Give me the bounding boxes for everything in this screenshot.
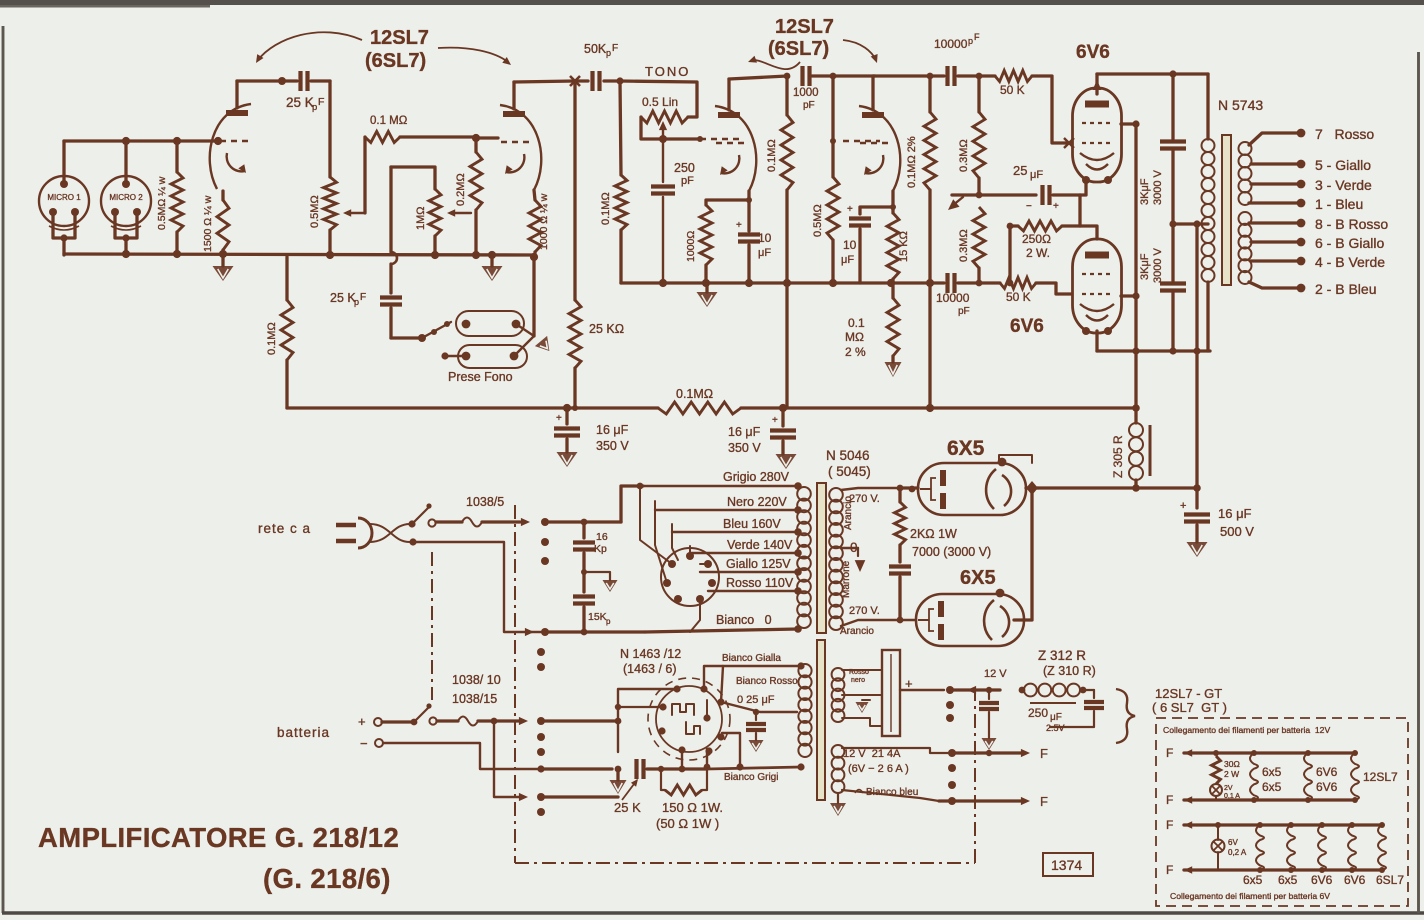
potentiometer 0.5 Lin tone <box>641 111 688 123</box>
svg-text:15 KΩ: 15 KΩ <box>898 231 910 262</box>
resistor 250 ohm 2W cathode <box>1010 224 1018 227</box>
svg-text:0: 0 <box>850 540 858 555</box>
microphone MICRO 2 <box>101 176 151 226</box>
svg-text:0.1MΩ 2%: 0.1MΩ 2% <box>906 136 918 188</box>
arrow 12V feed <box>950 688 1000 691</box>
stage2 ground bus <box>621 281 944 284</box>
svg-text:350 V: 350 V <box>728 441 761 455</box>
svg-text:12SL7: 12SL7 <box>370 27 429 49</box>
svg-text:1038/15: 1038/15 <box>452 692 497 706</box>
vibrator dashed circle <box>648 678 730 760</box>
swoosh arrow left to V1a <box>258 32 362 60</box>
filter capacitor 16uF 350V first <box>565 408 568 424</box>
svg-text:2 W.: 2 W. <box>1026 246 1050 260</box>
capacitor 1000pF coupling <box>800 66 804 86</box>
svg-text:pF: pF <box>958 306 970 317</box>
ground symbol rectifier <box>862 699 870 701</box>
resistor 0.1Mohm left leg <box>285 360 288 408</box>
svg-text:7000 (3000 V): 7000 (3000 V) <box>912 545 991 559</box>
svg-text:12 V: 12 V <box>984 668 1007 680</box>
svg-text:(Z 310 R): (Z 310 R) <box>1043 664 1096 678</box>
svg-text:1000 Ω ¼ w: 1000 Ω ¼ w <box>538 193 550 250</box>
svg-text:150 Ω 1W.: 150 Ω 1W. <box>662 800 723 815</box>
OT secondary winding upper <box>1239 142 1252 155</box>
svg-text:Z 312 R: Z 312 R <box>1038 648 1086 663</box>
svg-text:10000: 10000 <box>936 291 970 305</box>
inset lamp 6V <box>1215 822 1221 828</box>
resistor 1500 ohm quarter-watt <box>217 200 229 250</box>
svg-text:25 K: 25 K <box>330 291 356 305</box>
svg-text:μF: μF <box>758 247 771 259</box>
tono top wire <box>620 81 697 117</box>
svg-text:0.1: 0.1 <box>848 316 865 330</box>
rectifier block connections <box>842 669 882 671</box>
svg-text:10: 10 <box>758 231 772 245</box>
socket connector wires <box>640 486 672 564</box>
bottom border line <box>2 911 1424 915</box>
vibrator left rail <box>618 689 677 752</box>
resistor 0.5Mohm quarter-watt <box>175 141 178 172</box>
ground symbol 16uF first <box>565 439 568 452</box>
svg-text:+: + <box>1180 500 1186 512</box>
resistor 0.1Mohm decoupling bus <box>287 406 658 409</box>
svg-text:p: p <box>968 36 973 46</box>
inset heater 6V6 pair <box>1305 750 1311 756</box>
capacitor 2K bypass <box>898 545 901 562</box>
svg-text:0,2 A: 0,2 A <box>1228 848 1247 857</box>
6V6 lower plate to OT bottom <box>1095 331 1098 351</box>
svg-text:1500 Ω ¼ w: 1500 Ω ¼ w <box>202 195 214 252</box>
switch prese fono <box>389 308 392 338</box>
svg-text:0.2MΩ: 0.2MΩ <box>455 173 467 206</box>
svg-text:0.3MΩ: 0.3MΩ <box>958 229 970 262</box>
V2b cathode wires <box>860 191 893 214</box>
inset dashed box <box>1156 718 1408 906</box>
wire battery plus to vibrator rail <box>541 719 618 722</box>
LV primary mid tap <box>721 702 797 712</box>
ground symbol stage2 <box>705 283 708 292</box>
OT center tap wire <box>1173 222 1208 225</box>
capacitor 15KpF <box>582 553 585 592</box>
svg-text:Bleu 160V: Bleu 160V <box>723 517 781 531</box>
PT core <box>817 483 826 633</box>
svg-text:0,1 A: 0,1 A <box>1224 793 1240 800</box>
svg-text:Collegamento dei filamenti per: Collegamento dei filamenti per batteria … <box>1163 725 1330 735</box>
svg-text:pF: pF <box>681 175 694 187</box>
pot wiper arrow <box>349 212 365 214</box>
resistor 50K upper <box>958 74 995 77</box>
svg-text:30Ω: 30Ω <box>1224 759 1240 769</box>
ground symbol lower grid leak <box>885 362 902 377</box>
capacitor 16KpF <box>582 522 585 538</box>
LV secondary lower winding <box>832 745 845 758</box>
vibrator body circle <box>656 686 722 752</box>
filament line F lower <box>948 797 956 805</box>
svg-text:12 V 21 4A: 12 V 21 4A <box>843 748 901 760</box>
filament line F upper <box>948 749 956 757</box>
svg-text:−: − <box>360 736 368 751</box>
svg-text:F: F <box>318 96 324 108</box>
wire mains to primary caps <box>545 520 584 523</box>
LV primary top tap Bianco Gialla <box>704 666 801 689</box>
resistor 0.2Mohm <box>474 138 477 152</box>
svg-text:250: 250 <box>1028 706 1048 720</box>
wire 50K to 6V6 grid upper <box>1032 76 1070 143</box>
V2a plate to rail <box>727 79 730 110</box>
svg-text:Verde 140V: Verde 140V <box>727 538 793 552</box>
svg-text:Nero 220V: Nero 220V <box>727 495 787 509</box>
capacitor 10000pF upper coupling <box>945 66 949 86</box>
OT tap 8 B Rosso <box>1249 221 1297 224</box>
inset lamp 12V <box>1210 784 1222 796</box>
battery minus wire <box>383 743 541 769</box>
svg-text:6V6: 6V6 <box>1344 873 1366 887</box>
svg-text:5 - Giallo: 5 - Giallo <box>1315 157 1371 173</box>
svg-text:F: F <box>1166 793 1173 807</box>
ground symbol buffer cap <box>749 740 764 752</box>
V2a grid wire dashes <box>700 138 740 141</box>
svg-text:6x5: 6x5 <box>1243 873 1263 887</box>
svg-text:+: + <box>358 714 366 729</box>
capacitor 3KuF 3000V lower <box>1160 281 1186 285</box>
arrow feed marker <box>952 197 963 206</box>
svg-text:6x5: 6x5 <box>1262 780 1282 794</box>
cathode capacitor 10uF V2a <box>738 232 760 236</box>
svg-text:10000: 10000 <box>934 37 968 51</box>
svg-text:0.1MΩ: 0.1MΩ <box>266 322 278 355</box>
fuse 1038/5 <box>436 520 462 523</box>
svg-text:3 - Verde: 3 - Verde <box>1315 177 1372 193</box>
wire V1b plate to top rail <box>512 82 515 109</box>
svg-text:12SL7: 12SL7 <box>1363 770 1398 784</box>
svg-text:p: p <box>606 48 611 58</box>
svg-text:rete c a: rete c a <box>258 521 311 536</box>
OT tap 6 B Giallo <box>1251 240 1297 243</box>
capacitor 50KpF coupling <box>575 79 588 82</box>
vibrator pins <box>673 685 680 692</box>
triode V2a 12SL7 second tube <box>718 112 740 118</box>
capacitor 25KpF coupling <box>298 71 302 91</box>
ground symbol prese fono <box>532 259 535 336</box>
svg-text:0.1MΩ: 0.1MΩ <box>676 387 713 401</box>
phono jack upper <box>456 311 524 336</box>
resistor 50K lower <box>958 281 1000 284</box>
svg-text:(1463 / 6): (1463 / 6) <box>623 662 677 676</box>
svg-text:0.5MΩ ¼ w: 0.5MΩ ¼ w <box>156 176 168 230</box>
svg-text:N 1463 /12: N 1463 /12 <box>620 647 681 661</box>
svg-text:−: − <box>1026 201 1032 212</box>
mains plug <box>336 523 356 528</box>
filament takeoff bracket <box>1116 689 1135 743</box>
svg-text:+: + <box>905 676 913 691</box>
svg-text:(G. 218/6): (G. 218/6) <box>263 863 391 894</box>
svg-text:270 V.: 270 V. <box>849 605 880 617</box>
svg-text:16 μF: 16 μF <box>596 423 629 437</box>
battery switch <box>382 720 414 723</box>
svg-text:16 μF: 16 μF <box>728 425 761 439</box>
power tube 6V6 lower <box>1073 239 1122 333</box>
svg-text:250Ω: 250Ω <box>1022 232 1051 246</box>
LV transformer core <box>817 640 825 800</box>
svg-text:3000 V: 3000 V <box>1152 169 1164 205</box>
svg-text:Giallo 125V: Giallo 125V <box>726 557 791 571</box>
svg-text:2 W: 2 W <box>1224 769 1239 779</box>
resistor 0.1Mohm V2a plate load <box>785 76 788 115</box>
wire micro2 top <box>124 141 127 184</box>
svg-text:25: 25 <box>1013 163 1027 178</box>
swoosh arrow right to V1b <box>438 48 508 62</box>
wire micro1 top <box>62 141 65 184</box>
svg-text:6SL7: 6SL7 <box>1376 873 1404 887</box>
svg-text:Prese Fono: Prese Fono <box>448 370 513 384</box>
svg-text:( 5045): ( 5045) <box>828 464 871 479</box>
svg-text:2V: 2V <box>1224 785 1233 792</box>
inset resistor 30ohm 2W <box>1213 750 1219 756</box>
svg-text:Arancio: Arancio <box>843 496 854 530</box>
svg-text:25 KΩ: 25 KΩ <box>589 322 624 336</box>
svg-text:6V6: 6V6 <box>1010 316 1044 337</box>
svg-text:MICRO 1: MICRO 1 <box>47 193 81 202</box>
ground symbol input stage left <box>221 255 224 266</box>
OT primary winding <box>1206 74 1209 139</box>
resistor 0.3Mohm lower <box>973 207 985 268</box>
grid leak 25 Kohm riser <box>573 81 576 300</box>
PT HV center tap <box>841 547 858 549</box>
OT tap 2 B Bleu <box>1249 282 1297 288</box>
choke Z305R <box>1134 408 1137 423</box>
LV primary bottom tap Bianco Grigi <box>707 767 801 769</box>
svg-text:1038/ 10: 1038/ 10 <box>452 673 501 687</box>
svg-text:6V6: 6V6 <box>1311 873 1333 887</box>
svg-text:Bianco Grigi: Bianco Grigi <box>724 772 778 783</box>
PT HV bottom tap 270V <box>841 620 916 626</box>
svg-text:Arancio: Arancio <box>840 626 874 637</box>
capacitor 25K <box>634 759 638 779</box>
svg-text:3KμF: 3KμF <box>1139 178 1151 205</box>
ground symbol 16uF 500V <box>1195 525 1198 542</box>
swoosh arrow left to V2a <box>751 60 800 69</box>
svg-text:25 K: 25 K <box>286 95 314 110</box>
twisted cord <box>370 524 410 542</box>
svg-text:250: 250 <box>674 161 695 175</box>
triode V1b 12SL7 second half <box>503 111 525 117</box>
svg-text:F: F <box>1166 818 1173 832</box>
svg-text:3000 V: 3000 V <box>1152 247 1164 283</box>
svg-text:500 V: 500 V <box>1220 524 1254 539</box>
svg-text:F: F <box>974 32 980 42</box>
resistor 0.1Mohm 2 percent upper <box>928 76 931 112</box>
svg-text:nero: nero <box>851 677 865 684</box>
OT core <box>1222 135 1231 285</box>
svg-text:Rosso 110V: Rosso 110V <box>726 576 794 590</box>
svg-text:Grigio 280V: Grigio 280V <box>723 470 790 484</box>
svg-text:6V6: 6V6 <box>1076 42 1110 63</box>
OT tap 3 Verde <box>1251 182 1297 185</box>
PT primary winding <box>797 487 811 501</box>
svg-text:2 - B Bleu: 2 - B Bleu <box>1315 281 1376 297</box>
V2b plate lead <box>871 76 874 110</box>
capacitor 25KpF prese fono <box>389 167 392 252</box>
svg-text:50 K: 50 K <box>1006 290 1031 304</box>
OT tap 7 Rosso <box>1249 133 1297 145</box>
right border line <box>1417 52 1420 913</box>
svg-text:6 - B Giallo: 6 - B Giallo <box>1315 235 1384 251</box>
file number 1374 box <box>1043 853 1093 876</box>
svg-text:1MΩ: 1MΩ <box>415 206 427 230</box>
cathode junction wire y195 <box>952 193 1036 196</box>
inset 6V heaters <box>1257 822 1263 828</box>
svg-text:Bianco 0: Bianco 0 <box>716 613 772 627</box>
cathode resistor 15Kohm <box>887 213 899 279</box>
svg-text:Z 305 R: Z 305 R <box>1111 435 1125 478</box>
capacitor 3KuF 3000V upper <box>1171 74 1174 139</box>
svg-text:25 K: 25 K <box>614 800 641 815</box>
battery dots column <box>537 717 545 725</box>
ground symbol 12V cap <box>982 738 997 750</box>
svg-text:10: 10 <box>843 238 857 252</box>
fuse 1038/10 1038/15 <box>437 719 458 722</box>
PT HV top tap 270V <box>841 488 900 490</box>
svg-text:pF: pF <box>803 100 815 111</box>
OT tap 4 B Verde <box>1251 259 1297 262</box>
V2b grid dashes <box>843 140 880 143</box>
svg-text:(6SL7): (6SL7) <box>365 50 426 72</box>
resistor 0.1Mohm 2 percent lower <box>891 283 894 298</box>
swoosh arrow right to V2b <box>843 40 876 60</box>
svg-text:F: F <box>1166 863 1173 877</box>
OT secondary winding lower <box>1239 212 1252 225</box>
LV secondary upper winding <box>832 668 845 681</box>
svg-text:0.1MΩ: 0.1MΩ <box>600 192 612 225</box>
svg-text:1000Ω: 1000Ω <box>685 231 697 262</box>
potentiometer 0.5Mohm volume <box>324 177 337 230</box>
tone wiper arrow <box>659 121 667 130</box>
LV transformer primary winding <box>798 664 811 677</box>
svg-text:N 5743: N 5743 <box>1218 97 1263 113</box>
svg-text:0.5MΩ: 0.5MΩ <box>309 195 321 228</box>
mains switch blade <box>412 508 428 524</box>
inset heater 6X5 pair <box>1251 750 1257 756</box>
cathode resistor 1000 ohm quarter-watt <box>534 190 535 200</box>
svg-text:Bianco Gialla: Bianco Gialla <box>722 653 781 664</box>
svg-text:1374: 1374 <box>1051 857 1082 873</box>
battery section boundary <box>431 552 433 700</box>
svg-text:μF: μF <box>1050 712 1062 723</box>
svg-text:F: F <box>1166 746 1173 760</box>
wire V1b grid dashes <box>476 136 498 139</box>
svg-text:Kp: Kp <box>594 543 607 555</box>
svg-text:6X5: 6X5 <box>960 567 996 589</box>
svg-text:+: + <box>772 415 778 426</box>
grid leak 0.5Mohm V2b <box>831 76 834 177</box>
microphone MICRO 1 <box>39 176 89 226</box>
svg-text:7 Rosso: 7 Rosso <box>1315 126 1374 142</box>
cathode resistor 1000 ohm V2a <box>700 205 712 265</box>
svg-text:0 25 μF: 0 25 μF <box>737 694 775 706</box>
rectifier block <box>882 650 900 736</box>
6X5 upper top link <box>999 455 1032 463</box>
svg-text:3KμF: 3KμF <box>1139 253 1151 280</box>
capacitor 25uF cathode <box>1040 185 1044 205</box>
ground symbol primary caps <box>584 572 610 580</box>
svg-text:TONO: TONO <box>645 64 690 79</box>
svg-text:MICRO 2: MICRO 2 <box>109 193 143 202</box>
rectifier output wire <box>900 689 944 691</box>
rectifier 6X5 upper <box>918 463 1026 515</box>
svg-text:MΩ: MΩ <box>845 330 864 344</box>
svg-text:1038/5: 1038/5 <box>466 495 504 509</box>
terminal dots column mains <box>541 518 549 526</box>
cathode capacitor 10uF V2b <box>849 216 871 220</box>
PT HV secondary winding <box>829 488 843 502</box>
svg-text:μF: μF <box>841 254 854 266</box>
top dark border strip <box>0 0 1424 5</box>
svg-text:16: 16 <box>596 531 608 543</box>
svg-text:50 K: 50 K <box>1000 83 1025 97</box>
voltage selector socket <box>661 548 719 606</box>
svg-text:F: F <box>1040 794 1048 809</box>
power tube 6V6 upper <box>1073 88 1122 182</box>
svg-text:+: + <box>736 220 742 231</box>
B+ line from rectifier <box>1038 486 1197 489</box>
resistor 0.1Mohm tono leak <box>620 81 621 175</box>
filter capacitor 16uF 500V <box>1195 488 1198 508</box>
wire 250ohm drop to bus <box>1008 226 1011 283</box>
svg-text:(6SL7): (6SL7) <box>768 38 829 60</box>
ground symbol input stage right <box>490 255 493 266</box>
svg-text:0.5MΩ: 0.5MΩ <box>812 204 824 237</box>
svg-text:12SL7: 12SL7 <box>775 16 834 38</box>
svg-text:0.1MΩ: 0.1MΩ <box>766 139 778 172</box>
svg-text:F: F <box>360 292 366 303</box>
svg-text:6X5: 6X5 <box>947 437 985 460</box>
svg-text:( 6 SL7 GT ): ( 6 SL7 GT ) <box>1152 700 1227 715</box>
svg-text:50K: 50K <box>584 42 607 56</box>
svg-text:15K: 15K <box>588 611 607 623</box>
svg-text:+: + <box>847 204 853 215</box>
1Mohm wiper arrow <box>453 212 471 214</box>
grid bus wire y141 <box>64 139 218 142</box>
mains return wire <box>413 542 545 632</box>
svg-text:6V6: 6V6 <box>1316 780 1338 794</box>
svg-text:16 μF: 16 μF <box>1218 506 1252 521</box>
svg-text:6x5: 6x5 <box>1262 765 1282 779</box>
inset heater 12SL7 <box>1352 750 1358 756</box>
svg-text:350 V: 350 V <box>596 439 629 453</box>
svg-text:AMPLIFICATORE G. 218/12: AMPLIFICATORE G. 218/12 <box>38 822 399 853</box>
wire V1b plate junction X <box>570 76 580 86</box>
svg-text:p: p <box>606 617 611 626</box>
phono jack lower <box>458 345 527 368</box>
OT tap 1 Bleu <box>1249 201 1297 204</box>
6X5 output wires <box>1014 488 1032 620</box>
vibrator internal contacts <box>672 704 694 715</box>
svg-text:(50 Ω 1W ): (50 Ω 1W ) <box>656 816 719 831</box>
dots column vibrator output <box>946 686 954 694</box>
resistor 0.1Mohm grid stopper <box>365 132 400 143</box>
triode V1a 12SL7 first half <box>226 110 248 116</box>
svg-text:2KΩ 1W: 2KΩ 1W <box>910 527 957 541</box>
OT tap 5 Giallo <box>1251 162 1297 165</box>
svg-text:4 - B Verde: 4 - B Verde <box>1315 254 1385 270</box>
arrow battery plus <box>494 719 519 722</box>
potentiometer 1Mohm <box>391 167 435 189</box>
svg-text:0.3MΩ: 0.3MΩ <box>958 139 970 172</box>
svg-text:1 - Bleu: 1 - Bleu <box>1315 196 1363 212</box>
vibrator bottom connections <box>721 666 723 702</box>
triode V2b 12SL7 <box>862 112 884 118</box>
svg-text:6V: 6V <box>1228 838 1238 847</box>
